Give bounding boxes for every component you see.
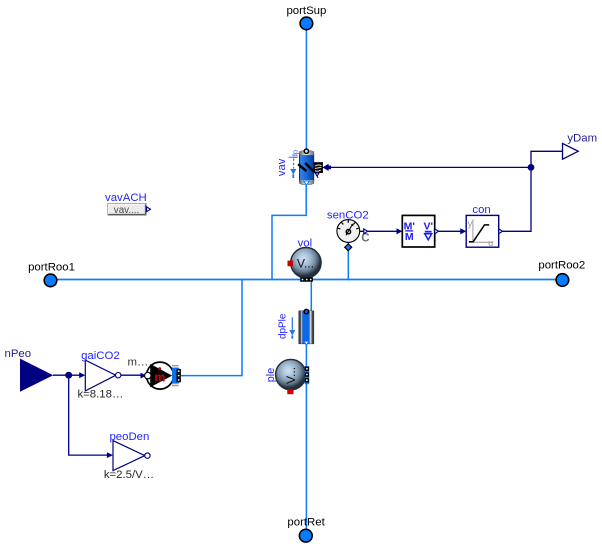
vol fluid ports [300,277,313,282]
svg-text:yDam: yDam [567,132,597,144]
svg-text:portSup: portSup [286,5,326,17]
sensor senCO2 [327,209,370,244]
dpPle arrow annotation [289,317,295,338]
svg-text:V...: V... [284,367,298,384]
junction dot nPeo [65,372,72,379]
svg-text:con: con [472,204,490,216]
ple fluid ports [305,366,310,384]
expression block vavACH [105,192,150,216]
damper vav [298,149,331,185]
svg-text:u: u [488,238,493,249]
wire gaiCO2 to souCO2 [121,374,142,376]
svg-text:portRoo2: portRoo2 [538,259,585,271]
svg-text:V...: V... [297,257,314,271]
svg-text:nPeo: nPeo [4,348,31,360]
svg-text:M: M [405,231,414,243]
wire souCO2 to main line [181,280,242,376]
svg-text:m…: m… [128,356,149,368]
svg-text:V': V' [423,220,433,232]
svg-text:vol: vol [298,238,313,250]
svg-text:portRoo1: portRoo1 [28,262,75,274]
svg-text:C: C [361,232,369,244]
conversion block M/V [397,215,439,247]
output yDam [563,132,598,159]
svg-text:dpPle: dpPle [278,313,289,339]
wire nPeo branch to peoDen [69,377,108,455]
input nPeo [4,348,53,392]
svg-text:vav: vav [276,158,288,176]
wire senCO2 to conversion block [360,230,398,232]
wire vav to main line [272,184,306,280]
svg-text:k=8.18…: k=8.18… [77,389,123,401]
svg-text:k=2.5/V…: k=2.5/V… [104,469,154,481]
arrowhead into souCO2 [141,373,147,379]
svg-text:m: m [154,371,165,385]
wire nPeo to gaiCO2 [53,374,81,376]
connector senCO2 port diamond [345,244,352,251]
wire dpPle to portRet [305,344,307,531]
wire con output to yDam [502,151,562,231]
wire vol to dpPle [307,282,312,312]
svg-text:vav....: vav.... [114,205,139,216]
svg-text:senCO2: senCO2 [327,209,369,221]
wire damper y input [329,166,531,168]
wire conversion block to con [438,230,463,232]
connector portRoo1 [28,262,75,287]
svg-text:vavACH: vavACH [105,192,147,204]
source souCO2 (mass flow source) [145,362,181,389]
svg-text:y: y [468,218,473,229]
volume ple [276,359,306,394]
controller con [460,204,502,249]
arrowhead into gaiCO2 [79,372,85,378]
junction dot yDam branch [528,164,535,171]
connector portRoo2 [538,259,585,286]
gain peoDen [104,431,154,481]
gain gaiCO2 [77,350,123,401]
arrowhead into peoDen [107,452,113,458]
damper vav dp annotation [289,150,300,178]
connector portRet [287,517,325,543]
svg-text:peoDen: peoDen [109,431,149,443]
volume vol [288,238,322,278]
wire main horizontal portRoo1 to portRoo2 [50,279,562,281]
wire senCO2 to main line [347,248,349,280]
svg-text:portRet: portRet [287,517,325,529]
resistance dpPle [299,309,314,345]
svg-text:gaiCO2: gaiCO2 [81,350,120,362]
connector portSup [286,5,326,30]
svg-text:ple: ple [265,368,277,382]
wire portSup to vav [305,28,307,152]
